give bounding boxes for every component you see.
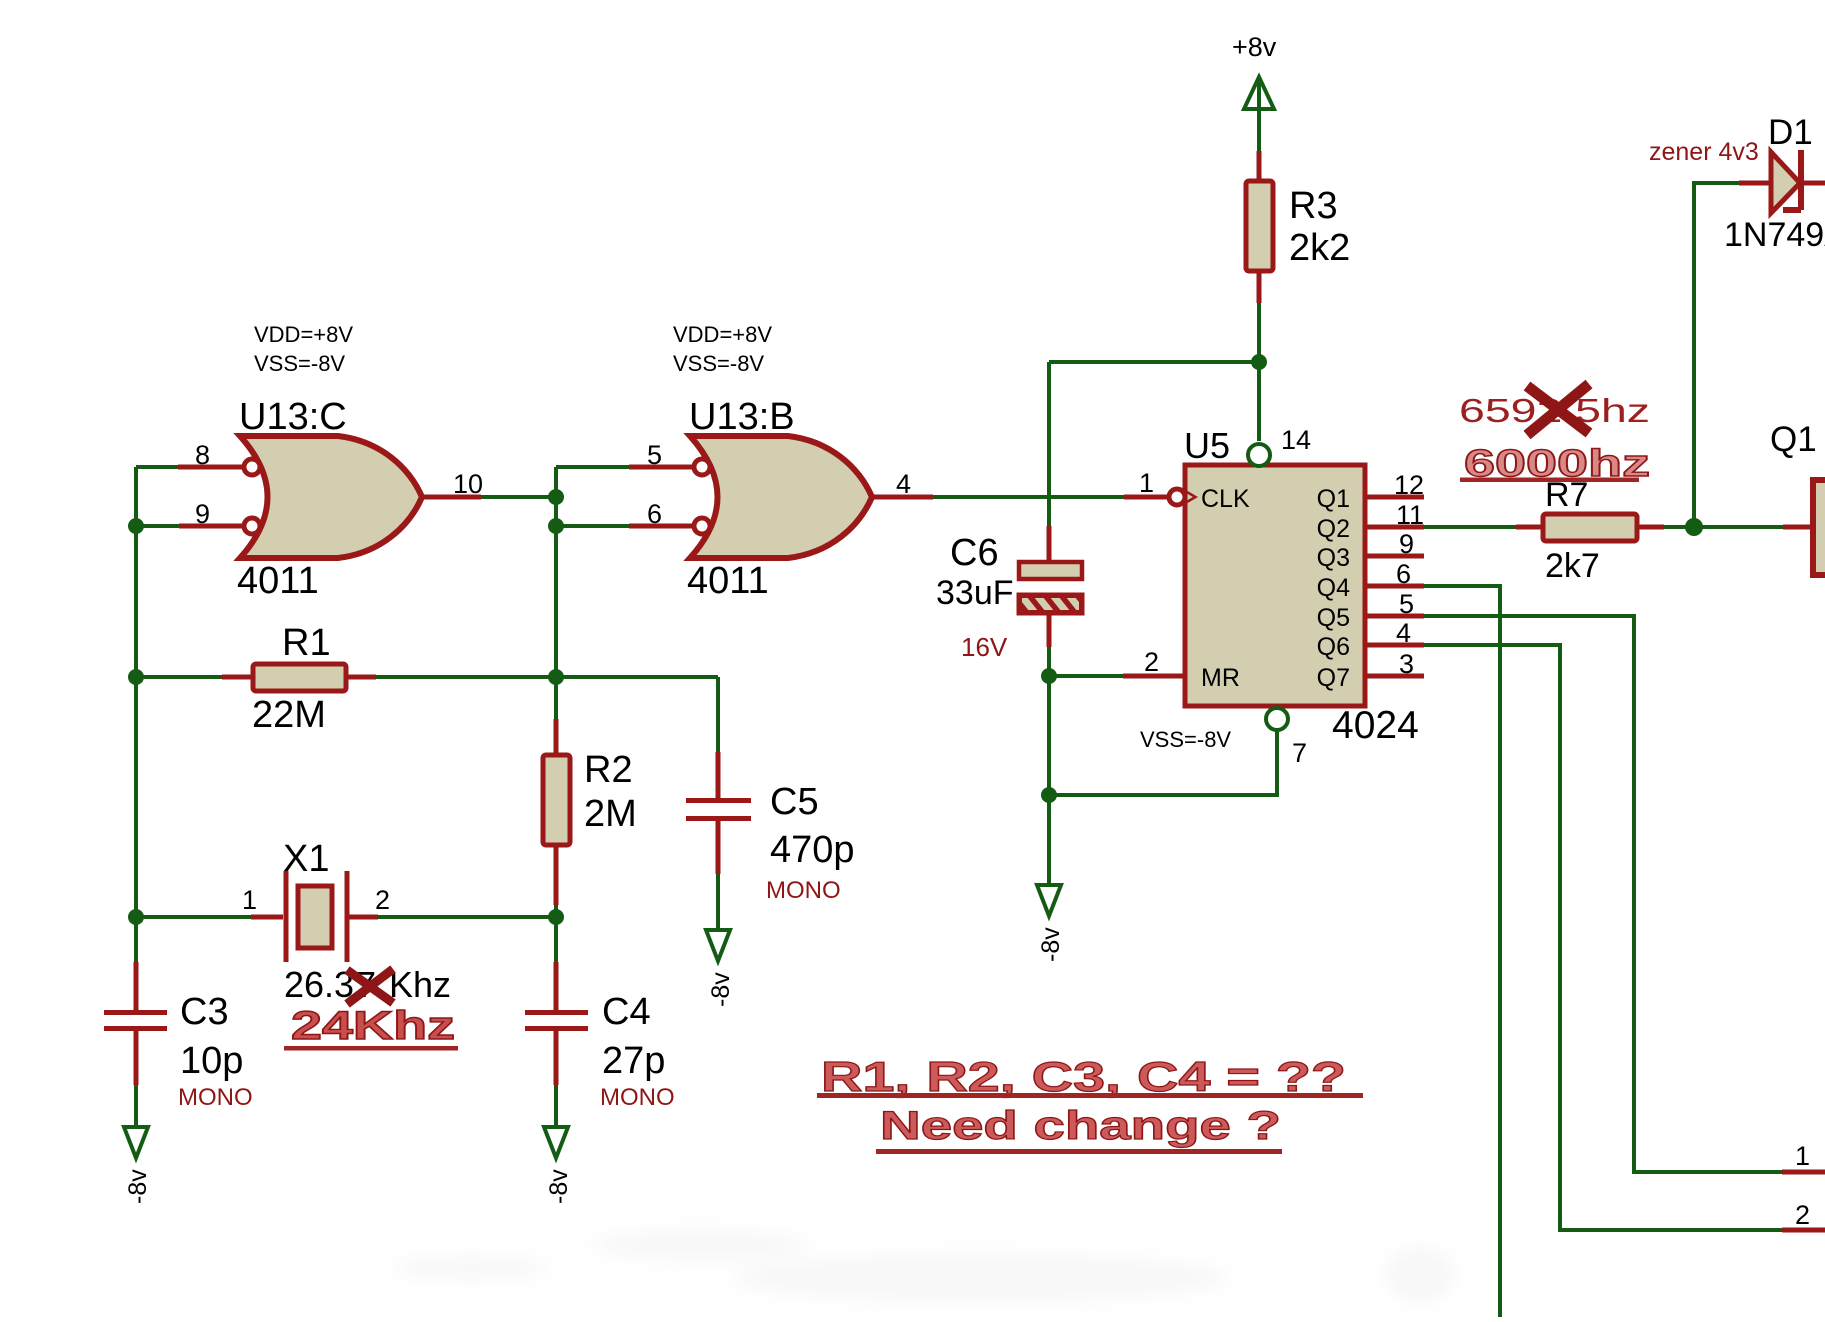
svg-text:VSS=-8V: VSS=-8V (1140, 727, 1231, 752)
pin 6 stub (629, 524, 694, 529)
svg-text:22M: 22M (252, 694, 326, 736)
junction X1 right (548, 909, 564, 925)
svg-text:9: 9 (195, 499, 210, 529)
svg-text:MONO: MONO (766, 877, 841, 904)
svg-text:2: 2 (375, 885, 390, 915)
svg-text:8: 8 (195, 440, 210, 470)
wire R3 junction to C6 top (1049, 360, 1259, 364)
svg-text:1N749A: 1N749A (1724, 216, 1825, 254)
svg-text:14: 14 (1281, 425, 1311, 455)
svg-text:-8v: -8v (1037, 927, 1065, 962)
wire U13C output net (481, 495, 556, 499)
svg-text:-8v: -8v (545, 1169, 573, 1204)
svg-text:MR: MR (1201, 664, 1240, 692)
junction U13C output mid rail (548, 489, 564, 505)
svg-text:C6: C6 (950, 532, 999, 574)
svg-text:5: 5 (647, 440, 662, 470)
wire C6 column net (1047, 362, 1051, 885)
wire R3 top to +8v (1257, 108, 1261, 151)
wire Q5 net to pin1 (1424, 616, 1782, 1172)
svg-text:CLK: CLK (1201, 485, 1250, 513)
svg-text:11: 11 (1396, 500, 1424, 530)
svg-text:4011: 4011 (687, 560, 769, 602)
svg-text:U13:C: U13:C (239, 396, 347, 438)
U5 pin7 power bubble (1266, 708, 1288, 730)
resistor R1 (253, 664, 346, 691)
svg-text:4: 4 (1396, 618, 1411, 648)
annotation 26.37Khz crossed (284, 964, 451, 1005)
svg-text:Q1: Q1 (1317, 485, 1350, 513)
capacitor C5 (686, 798, 751, 821)
svg-text:VSS=-8V: VSS=-8V (254, 351, 345, 376)
wire junction to D1 anode (1694, 183, 1739, 527)
R2 pin stubs (554, 719, 559, 905)
U13:B input bubble pin6 (694, 518, 710, 534)
U5 CLK bubble (1169, 489, 1185, 505)
ground -8v arrow C3 (124, 1127, 148, 1158)
annotation R1 R2 C3 C4 question (817, 1053, 1363, 1100)
svg-text:10p: 10p (180, 1040, 243, 1082)
svg-text:MONO: MONO (178, 1084, 253, 1111)
junction X1 left (128, 909, 144, 925)
wire R7 to Q1 base (1664, 525, 1783, 529)
wire R3 to pin14 (1257, 303, 1261, 441)
svg-text:24Khz: 24Khz (291, 1004, 455, 1048)
junction R1 left (128, 669, 144, 685)
svg-text:VDD=+8V: VDD=+8V (254, 322, 353, 347)
svg-text:U5: U5 (1184, 425, 1230, 466)
svg-text:Khz: Khz (389, 964, 451, 1005)
X1 pin stubs (251, 915, 378, 920)
svg-text:MONO: MONO (600, 1084, 675, 1111)
svg-text:+8v: +8v (1232, 32, 1277, 62)
wire pin7 to -8v node (1049, 730, 1277, 795)
svg-text:4011: 4011 (237, 560, 319, 602)
C5 pin stubs (716, 752, 721, 874)
wire X1 row net (136, 915, 556, 919)
annotation 6000hz underlined (1460, 443, 1650, 485)
transistor Q1 body bar (clipped at right edge) (1813, 480, 1825, 575)
junction pin7 node (1041, 787, 1057, 803)
svg-text:-8v: -8v (124, 1169, 152, 1204)
Q1 base stub (1783, 525, 1813, 530)
svg-text:Q1: Q1 (1770, 420, 1817, 459)
wire Q2 to R7 (1424, 525, 1516, 529)
svg-text:6: 6 (1396, 559, 1411, 589)
svg-text:R2: R2 (584, 749, 633, 791)
svg-text:Q4: Q4 (1317, 574, 1350, 602)
R3 pin stubs (1257, 151, 1262, 303)
svg-text:1: 1 (242, 885, 257, 915)
svg-text:4024: 4024 (1332, 704, 1419, 747)
pin2 right stub (1782, 1228, 1825, 1233)
D1 anode stub (1739, 181, 1771, 186)
CLK pin stub (1124, 495, 1169, 500)
resistor R3 (1246, 181, 1273, 271)
svg-text:Q3: Q3 (1317, 544, 1350, 572)
wire pin8 net (136, 465, 178, 469)
svg-text:X1: X1 (283, 838, 329, 880)
capacitor C6 electrolytic (1019, 562, 1084, 614)
pin 8 stub (178, 465, 244, 470)
op-amp U13:B nand gate body (690, 436, 872, 558)
ground -8v arrow C5 (706, 930, 730, 961)
wire pin6 net (556, 524, 629, 528)
wire R1 row net (136, 677, 718, 930)
svg-text:9: 9 (1399, 529, 1414, 559)
svg-text:U13:B: U13:B (689, 396, 795, 438)
wire Q6 net to pin2 (1424, 645, 1782, 1230)
junction R7 output node (1685, 518, 1703, 536)
diode D1 zener (1771, 150, 1801, 213)
svg-text:C4: C4 (602, 991, 651, 1033)
U13:C input bubble pin9 (244, 518, 260, 534)
svg-text:R1: R1 (282, 622, 331, 664)
svg-text:2k2: 2k2 (1289, 227, 1350, 269)
junction pin6 mid rail (548, 518, 564, 534)
pin1 right stub (1782, 1170, 1825, 1175)
svg-text:6: 6 (647, 499, 662, 529)
wire MR net (1049, 674, 1123, 678)
svg-text:5: 5 (1399, 589, 1414, 619)
svg-text:33uF: 33uF (936, 574, 1014, 612)
svg-text:2: 2 (1144, 647, 1159, 677)
U13:B input bubble pin5 (694, 459, 710, 475)
svg-text:R3: R3 (1289, 185, 1338, 227)
svg-text:27p: 27p (602, 1040, 665, 1082)
svg-text:VDD=+8V: VDD=+8V (673, 322, 772, 347)
power +8v arrow (1244, 77, 1274, 113)
ground -8v arrow C4 (544, 1127, 568, 1158)
svg-text:Q5: Q5 (1317, 604, 1350, 632)
capacitor C3 (104, 1010, 167, 1031)
pin 5 stub (629, 465, 694, 470)
Q1..Q7 right pin stubs (1365, 497, 1424, 676)
wire Q4 net down (1424, 586, 1500, 1317)
svg-text:1: 1 (1795, 1141, 1810, 1171)
svg-text:Need change ?: Need change ? (880, 1104, 1281, 1148)
junction R1 right (548, 669, 564, 685)
wire pin5 net (556, 465, 629, 469)
svg-text:1: 1 (1139, 468, 1154, 498)
U5 pin14 power bubble (1248, 444, 1270, 466)
svg-text:2k7: 2k7 (1545, 547, 1600, 585)
svg-text:Q2: Q2 (1317, 515, 1350, 543)
svg-text:Q7: Q7 (1317, 664, 1350, 692)
wire mid rail vertical (554, 467, 558, 1127)
junction MR node (1041, 668, 1057, 684)
svg-text:-8v: -8v (707, 972, 735, 1007)
svg-text:3: 3 (1399, 649, 1414, 679)
svg-text:zener 4v3: zener 4v3 (1649, 138, 1759, 166)
D1 cathode wire right (1801, 181, 1825, 186)
R7 pin stubs (1516, 525, 1664, 530)
svg-text:R1, R2, C3, C4 = ??: R1, R2, C3, C4 = ?? (821, 1053, 1346, 1100)
svg-text:D1: D1 (1768, 113, 1813, 152)
pin 9 stub (179, 524, 244, 529)
R1 pin stubs (222, 675, 376, 680)
C6 pin stubs (1047, 526, 1052, 647)
mid rail cap stubs (554, 962, 559, 1085)
junction R3 bottom (1251, 354, 1267, 370)
U13:C input bubble pin8 (244, 459, 260, 475)
crystal X1 (286, 871, 347, 962)
op-amp U13:C nand gate body (240, 436, 422, 558)
svg-text:16V: 16V (961, 632, 1008, 662)
U13B output stub (872, 495, 933, 500)
MR pin stub (1123, 674, 1185, 679)
svg-text:470p: 470p (770, 829, 855, 871)
resistor R7 (1543, 514, 1637, 541)
svg-text:C5: C5 (770, 781, 819, 823)
ground -8v arrow U5 (1037, 885, 1061, 916)
svg-text:26.3: 26.3 (284, 964, 354, 1005)
annotation 24Khz underlined (284, 1004, 458, 1051)
capacitor C4 (525, 1010, 588, 1031)
IC U5 4024 body (1185, 465, 1365, 706)
svg-text:10: 10 (453, 469, 483, 499)
svg-text:Q6: Q6 (1317, 633, 1350, 661)
svg-text:4: 4 (896, 469, 911, 499)
junction pin9 left rail (128, 518, 144, 534)
U13C output stub (422, 495, 481, 500)
annotation Need change (876, 1104, 1282, 1154)
wire left rail vertical (134, 467, 138, 1127)
svg-text:2M: 2M (584, 793, 637, 835)
wire U13B output to CLK (933, 495, 1124, 499)
annotation 659X5hz crossed (1459, 384, 1650, 435)
svg-text:C3: C3 (180, 991, 229, 1033)
U5 clock triangle (1186, 492, 1196, 503)
svg-text:2: 2 (1795, 1200, 1810, 1230)
resistor R2 (543, 755, 570, 845)
wire left rail cap pin segments (red) (134, 962, 139, 1085)
svg-text:VSS=-8V: VSS=-8V (673, 351, 764, 376)
svg-text:7: 7 (1292, 738, 1307, 768)
svg-text:12: 12 (1394, 470, 1424, 500)
wire pin9 net (136, 524, 179, 528)
